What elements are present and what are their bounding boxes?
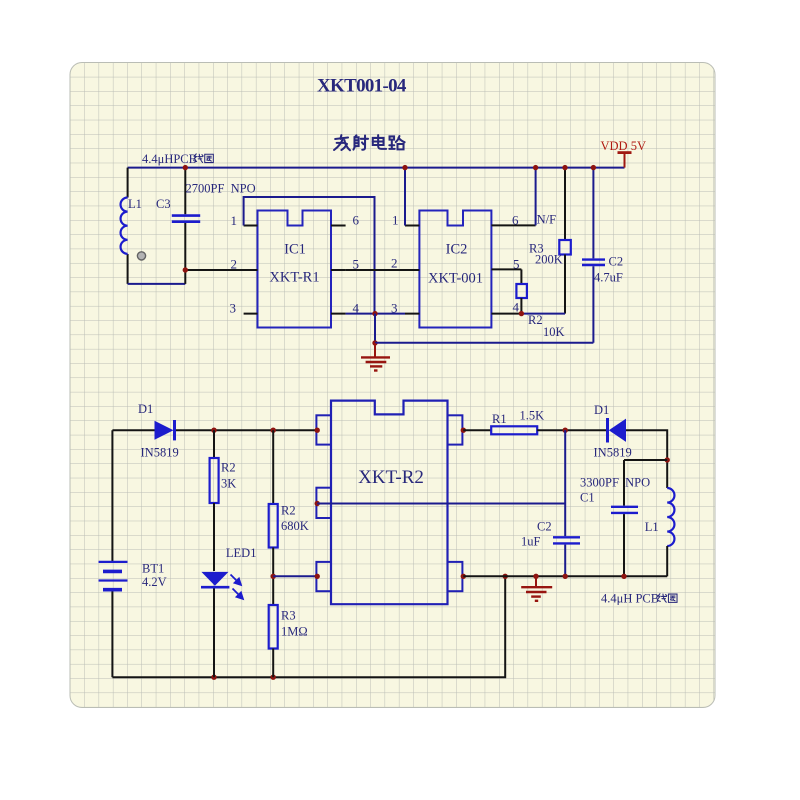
junction bbox=[519, 311, 524, 316]
wire ground rail to C2 bbox=[375, 342, 593, 344]
capacitor C3 2700PF bbox=[184, 168, 186, 284]
svg-text:XKT-R1: XKT-R1 bbox=[269, 270, 319, 286]
junction bbox=[402, 165, 407, 170]
svg-text:2700PF NPO: 2700PF NPO bbox=[186, 182, 256, 196]
battery BT1 4.2V bbox=[111, 430, 113, 561]
chip XKT-R2 box bbox=[331, 401, 448, 605]
pins IC1 right 6,5,4 bbox=[331, 226, 346, 314]
svg-text:XKT-001: XKT-001 bbox=[428, 271, 483, 287]
svg-text:10K: 10K bbox=[543, 325, 565, 339]
svg-text:VDD 5V: VDD 5V bbox=[601, 139, 646, 153]
schematic paper bbox=[70, 63, 715, 708]
svg-text:R1: R1 bbox=[492, 412, 507, 426]
diode D1 (right) IN5819 bbox=[606, 418, 609, 443]
wire middle through chip bbox=[317, 503, 565, 505]
svg-text:4.4μH PCB: 4.4μH PCB bbox=[601, 592, 659, 606]
wire battery top rail bbox=[112, 429, 154, 431]
svg-text:200K: 200K bbox=[535, 253, 563, 267]
resistor R1 1.5K bbox=[491, 426, 537, 434]
wire bottom right rail bbox=[463, 575, 667, 577]
wire D1 to coil corner bbox=[626, 430, 667, 488]
junction bbox=[271, 675, 276, 680]
LED1 bbox=[201, 572, 228, 586]
wire loop bottom bbox=[128, 283, 186, 285]
junction bbox=[533, 165, 538, 170]
diode D1 (left) IN5819 bbox=[155, 421, 174, 440]
power VDD 5V bbox=[618, 153, 632, 168]
capacitor C2 4.7uF bbox=[592, 168, 594, 259]
svg-text:4.4μHPCB: 4.4μHPCB bbox=[142, 152, 197, 166]
ground (bottom circuit) bbox=[521, 576, 552, 601]
pins IC2 right 6,5,4 bbox=[491, 225, 535, 313]
svg-text:1MΩ: 1MΩ bbox=[281, 625, 308, 639]
svg-text:D1: D1 bbox=[594, 403, 609, 417]
svg-text:3300PF NPO: 3300PF NPO bbox=[580, 476, 650, 490]
svg-text:XKT-R2: XKT-R2 bbox=[358, 467, 424, 488]
svg-text:XKT001-04: XKT001-04 bbox=[317, 76, 407, 97]
svg-text:3K: 3K bbox=[221, 477, 236, 491]
junction bbox=[211, 428, 216, 433]
junction bbox=[372, 340, 377, 345]
svg-text:BT1: BT1 bbox=[142, 562, 164, 576]
svg-text:5: 5 bbox=[513, 257, 520, 272]
ground (top circuit) bbox=[361, 343, 390, 371]
op IC2 XKT-001 box bbox=[419, 211, 491, 328]
chip tab pin2 bbox=[316, 488, 331, 518]
wire node to ground bbox=[374, 314, 376, 343]
svg-text:C2: C2 bbox=[609, 255, 624, 269]
wire pin4 node to R3 bbox=[521, 313, 565, 315]
junction bbox=[183, 267, 188, 272]
junction bbox=[563, 574, 568, 579]
junction bbox=[563, 428, 568, 433]
svg-text:L1: L1 bbox=[645, 520, 659, 534]
wire C1 top link bbox=[624, 459, 667, 461]
svg-text:2: 2 bbox=[231, 257, 238, 272]
wire IC2 pin1 to rail bbox=[404, 168, 406, 226]
svg-text:1: 1 bbox=[231, 213, 238, 228]
svg-text:4: 4 bbox=[513, 300, 520, 315]
junction tab2 bbox=[315, 501, 320, 506]
wire IC1 pin1 over box to node bbox=[244, 197, 375, 314]
junction bbox=[271, 428, 276, 433]
svg-text:6: 6 bbox=[512, 213, 519, 228]
junction bbox=[183, 165, 188, 170]
chip tab pin1 bbox=[316, 415, 331, 444]
svg-text:1uF: 1uF bbox=[521, 535, 541, 549]
svg-text:IC1: IC1 bbox=[284, 242, 306, 258]
wire R1 to D1 bbox=[537, 429, 607, 431]
junction bbox=[533, 574, 538, 579]
svg-text:1: 1 bbox=[392, 213, 399, 228]
chip tab pin3 bbox=[316, 562, 331, 591]
junction bbox=[503, 574, 508, 579]
wire C3 to pin2 bbox=[185, 269, 257, 271]
pins IC2 left 1,2,3 bbox=[405, 226, 419, 314]
svg-text:1.5K: 1.5K bbox=[520, 409, 545, 423]
wire top power rail bbox=[128, 167, 625, 169]
capacitor C1 3300PF bbox=[623, 460, 625, 506]
svg-text:4.2V: 4.2V bbox=[142, 575, 167, 589]
junction tab1 bbox=[315, 428, 320, 433]
svg-text:680K: 680K bbox=[281, 519, 309, 533]
junction bbox=[372, 311, 377, 316]
svg-text:3: 3 bbox=[391, 301, 398, 316]
title 发射电路 bbox=[334, 135, 405, 150]
svg-text:IC2: IC2 bbox=[446, 242, 468, 258]
node marker (gray circle) bbox=[137, 252, 145, 260]
capacitor C2 1uF bbox=[564, 430, 566, 536]
resistor R2 10K bbox=[520, 269, 522, 284]
inductor L1 (right) bbox=[667, 488, 674, 546]
svg-text:3: 3 bbox=[230, 301, 237, 316]
junction tabB bbox=[461, 574, 466, 579]
wire N/F to rail bbox=[535, 168, 537, 226]
junction bbox=[271, 574, 276, 579]
inductor L1 (top left) bbox=[127, 168, 129, 284]
svg-text:IN5819: IN5819 bbox=[594, 446, 632, 460]
wire bottom rail bbox=[112, 576, 505, 677]
chip tab pin4 bbox=[448, 415, 463, 444]
svg-text:C2: C2 bbox=[537, 520, 552, 534]
svg-text:N/F: N/F bbox=[537, 213, 557, 227]
svg-text:R2: R2 bbox=[528, 313, 543, 327]
wire IC1 pin4 to IC2 pin3 bbox=[346, 313, 405, 315]
resistor R3 1M bbox=[269, 605, 278, 649]
wire IC1 pin5 to IC2 pin2 bbox=[346, 269, 405, 271]
chip tab pin5 bbox=[448, 562, 463, 591]
junction bbox=[211, 675, 216, 680]
svg-text:R2: R2 bbox=[221, 461, 236, 475]
junction bbox=[665, 457, 670, 462]
svg-text:LED1: LED1 bbox=[226, 546, 257, 560]
junction bbox=[562, 165, 567, 170]
svg-text:L1: L1 bbox=[128, 197, 142, 211]
op IC1 XKT-R1 box bbox=[258, 211, 332, 328]
svg-text:4.7uF: 4.7uF bbox=[594, 271, 623, 285]
svg-text:C1: C1 bbox=[580, 491, 595, 505]
svg-text:6: 6 bbox=[353, 213, 360, 228]
junction tab3 bbox=[315, 574, 320, 579]
wire tabA to R1 bbox=[463, 429, 491, 431]
resistor R2 3K bbox=[213, 430, 215, 458]
resistor R2 680K bbox=[272, 430, 274, 504]
svg-text:C3: C3 bbox=[156, 197, 171, 211]
svg-text:IN5819: IN5819 bbox=[141, 446, 179, 460]
wire 680K node to tab3 bbox=[273, 575, 316, 577]
wire D1 to XKT-R2 bbox=[176, 429, 317, 431]
resistor R3 200K bbox=[564, 168, 566, 240]
svg-text:R2: R2 bbox=[281, 504, 296, 518]
pins IC1 left 1,2,3 bbox=[244, 226, 258, 314]
junction bbox=[591, 165, 596, 170]
svg-text:D1: D1 bbox=[138, 402, 153, 416]
junction tabA bbox=[461, 428, 466, 433]
junction bbox=[621, 574, 626, 579]
svg-text:2: 2 bbox=[391, 256, 398, 271]
svg-text:R3: R3 bbox=[281, 609, 296, 623]
